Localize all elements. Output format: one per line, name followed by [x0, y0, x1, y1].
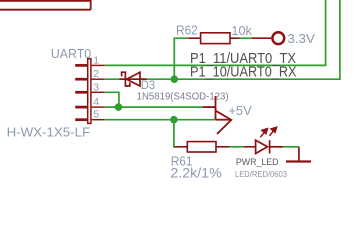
svg-text:+5V: +5V — [228, 103, 251, 118]
wire R62 right to 3.3V — [240, 37, 253, 39]
3.3V port circle — [272, 32, 284, 44]
svg-text:3.3V: 3.3V — [287, 31, 315, 46]
wire pin4 to +5V — [105, 106, 203, 108]
svg-text:P1_10/UART0_RX: P1_10/UART0_RX — [190, 64, 297, 81]
junction dot pin5/R61 — [170, 116, 178, 124]
svg-text:H-WX-1X5-LF: H-WX-1X5-LF — [7, 125, 91, 140]
svg-text:UART0: UART0 — [51, 46, 91, 61]
wire LED cathode to GND — [283, 146, 299, 148]
wire R61 to LED — [229, 146, 243, 148]
svg-text:LED/RED/0603: LED/RED/0603 — [235, 169, 287, 179]
ground — [286, 147, 311, 162]
connector pin leads — [92, 65, 105, 119]
connector pad stubs — [75, 65, 87, 119]
svg-text:5: 5 — [93, 109, 99, 121]
junction dot pin3/pin4 — [115, 103, 123, 111]
wire R62 pullup branch — [174, 38, 188, 79]
svg-text:1: 1 — [93, 54, 99, 66]
LED PWR_LED — [256, 140, 284, 153]
svg-text:PWR_LED: PWR_LED — [236, 156, 279, 167]
LED emission arrow 2 — [269, 127, 276, 136]
wire branch down to R61 — [174, 120, 175, 147]
diode D3 — [119, 72, 147, 86]
junction dot RX/R62 — [171, 75, 179, 83]
wire pin3 down to pin4 — [105, 92, 119, 107]
+5V power symbol — [203, 96, 231, 134]
svg-text:3: 3 — [93, 81, 99, 93]
svg-text:2: 2 — [93, 68, 99, 80]
wire TX net pin1 — [105, 0, 326, 65]
frame corner (sheet border) — [0, 0, 91, 10]
resistor R61 — [174, 142, 255, 152]
wire RX net pin2 — [105, 0, 340, 79]
resistor R62 — [188, 33, 271, 44]
connector UART0 body — [88, 59, 91, 124]
svg-text:4: 4 — [93, 96, 99, 108]
LED emission arrow 1 — [260, 129, 267, 138]
svg-text:2.2k/1%: 2.2k/1% — [170, 165, 221, 180]
svg-text:R62: R62 — [176, 23, 198, 38]
svg-text:D3: D3 — [141, 80, 155, 92]
svg-text:10k: 10k — [231, 23, 252, 38]
wire pin5 to +5V arrow — [105, 119, 216, 121]
